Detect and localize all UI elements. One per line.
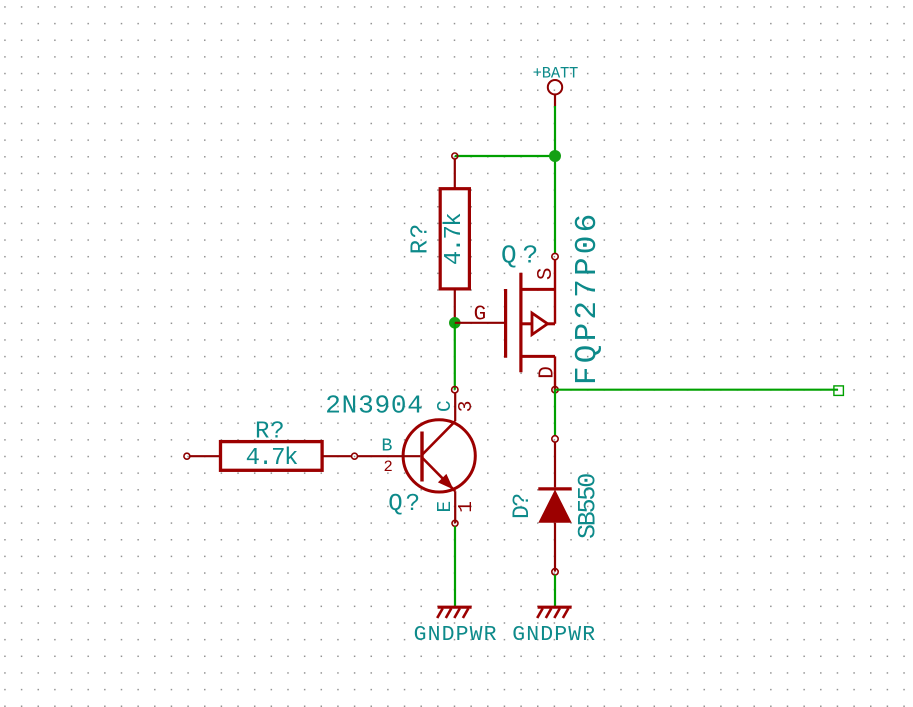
svg-text:3: 3 xyxy=(455,401,477,413)
wire diode to ground xyxy=(554,575,556,607)
svg-text:GNDPWR: GNDPWR xyxy=(414,623,498,647)
wire junction to MOSFET source pin xyxy=(554,156,556,253)
svg-text:1: 1 xyxy=(455,501,477,513)
wire +BATT to junction xyxy=(554,106,556,156)
junction at gate node xyxy=(449,317,461,329)
resistor R1 4.7k (vertical) xyxy=(440,153,469,323)
svg-text:E: E xyxy=(434,501,456,513)
resistor R2 4.7k (horizontal) xyxy=(184,442,352,471)
wire junction to resistor R1 top xyxy=(455,155,555,157)
ground GNDPWR right xyxy=(512,607,596,647)
svg-text:4.7k: 4.7k xyxy=(441,213,468,265)
svg-text:B: B xyxy=(381,436,392,457)
svg-text:Q?: Q? xyxy=(501,241,544,271)
svg-text:R?: R? xyxy=(255,418,285,445)
wire drain to diode xyxy=(554,390,556,436)
svg-text:Q?: Q? xyxy=(388,491,423,518)
wire gate node to BJT collector xyxy=(454,323,456,390)
wire drain to right (output) xyxy=(555,389,838,391)
svg-text:G: G xyxy=(474,303,487,326)
svg-text:2N3904: 2N3904 xyxy=(325,390,423,420)
ground GNDPWR left xyxy=(414,607,498,647)
wire emitter to ground xyxy=(454,526,456,606)
diode D1 SB550 xyxy=(538,436,571,575)
svg-text:4.7k: 4.7k xyxy=(246,445,298,472)
svg-text:R?: R? xyxy=(407,222,434,254)
svg-text:SB550: SB550 xyxy=(573,474,602,539)
svg-text:C: C xyxy=(434,400,456,412)
svg-text:D: D xyxy=(537,366,560,379)
svg-text:GNDPWR: GNDPWR xyxy=(512,623,596,647)
svg-text:2: 2 xyxy=(384,458,393,476)
power symbol +BATT xyxy=(533,65,579,106)
svg-text:D?: D? xyxy=(509,494,535,519)
transistor Q2 2N3904 xyxy=(352,387,476,527)
junction at +BATT rail xyxy=(549,150,561,162)
svg-text:FQP27P06: FQP27P06 xyxy=(570,211,605,385)
dangling wire end square xyxy=(834,386,844,396)
MOSFET U1 FQP27P06 xyxy=(455,253,558,392)
